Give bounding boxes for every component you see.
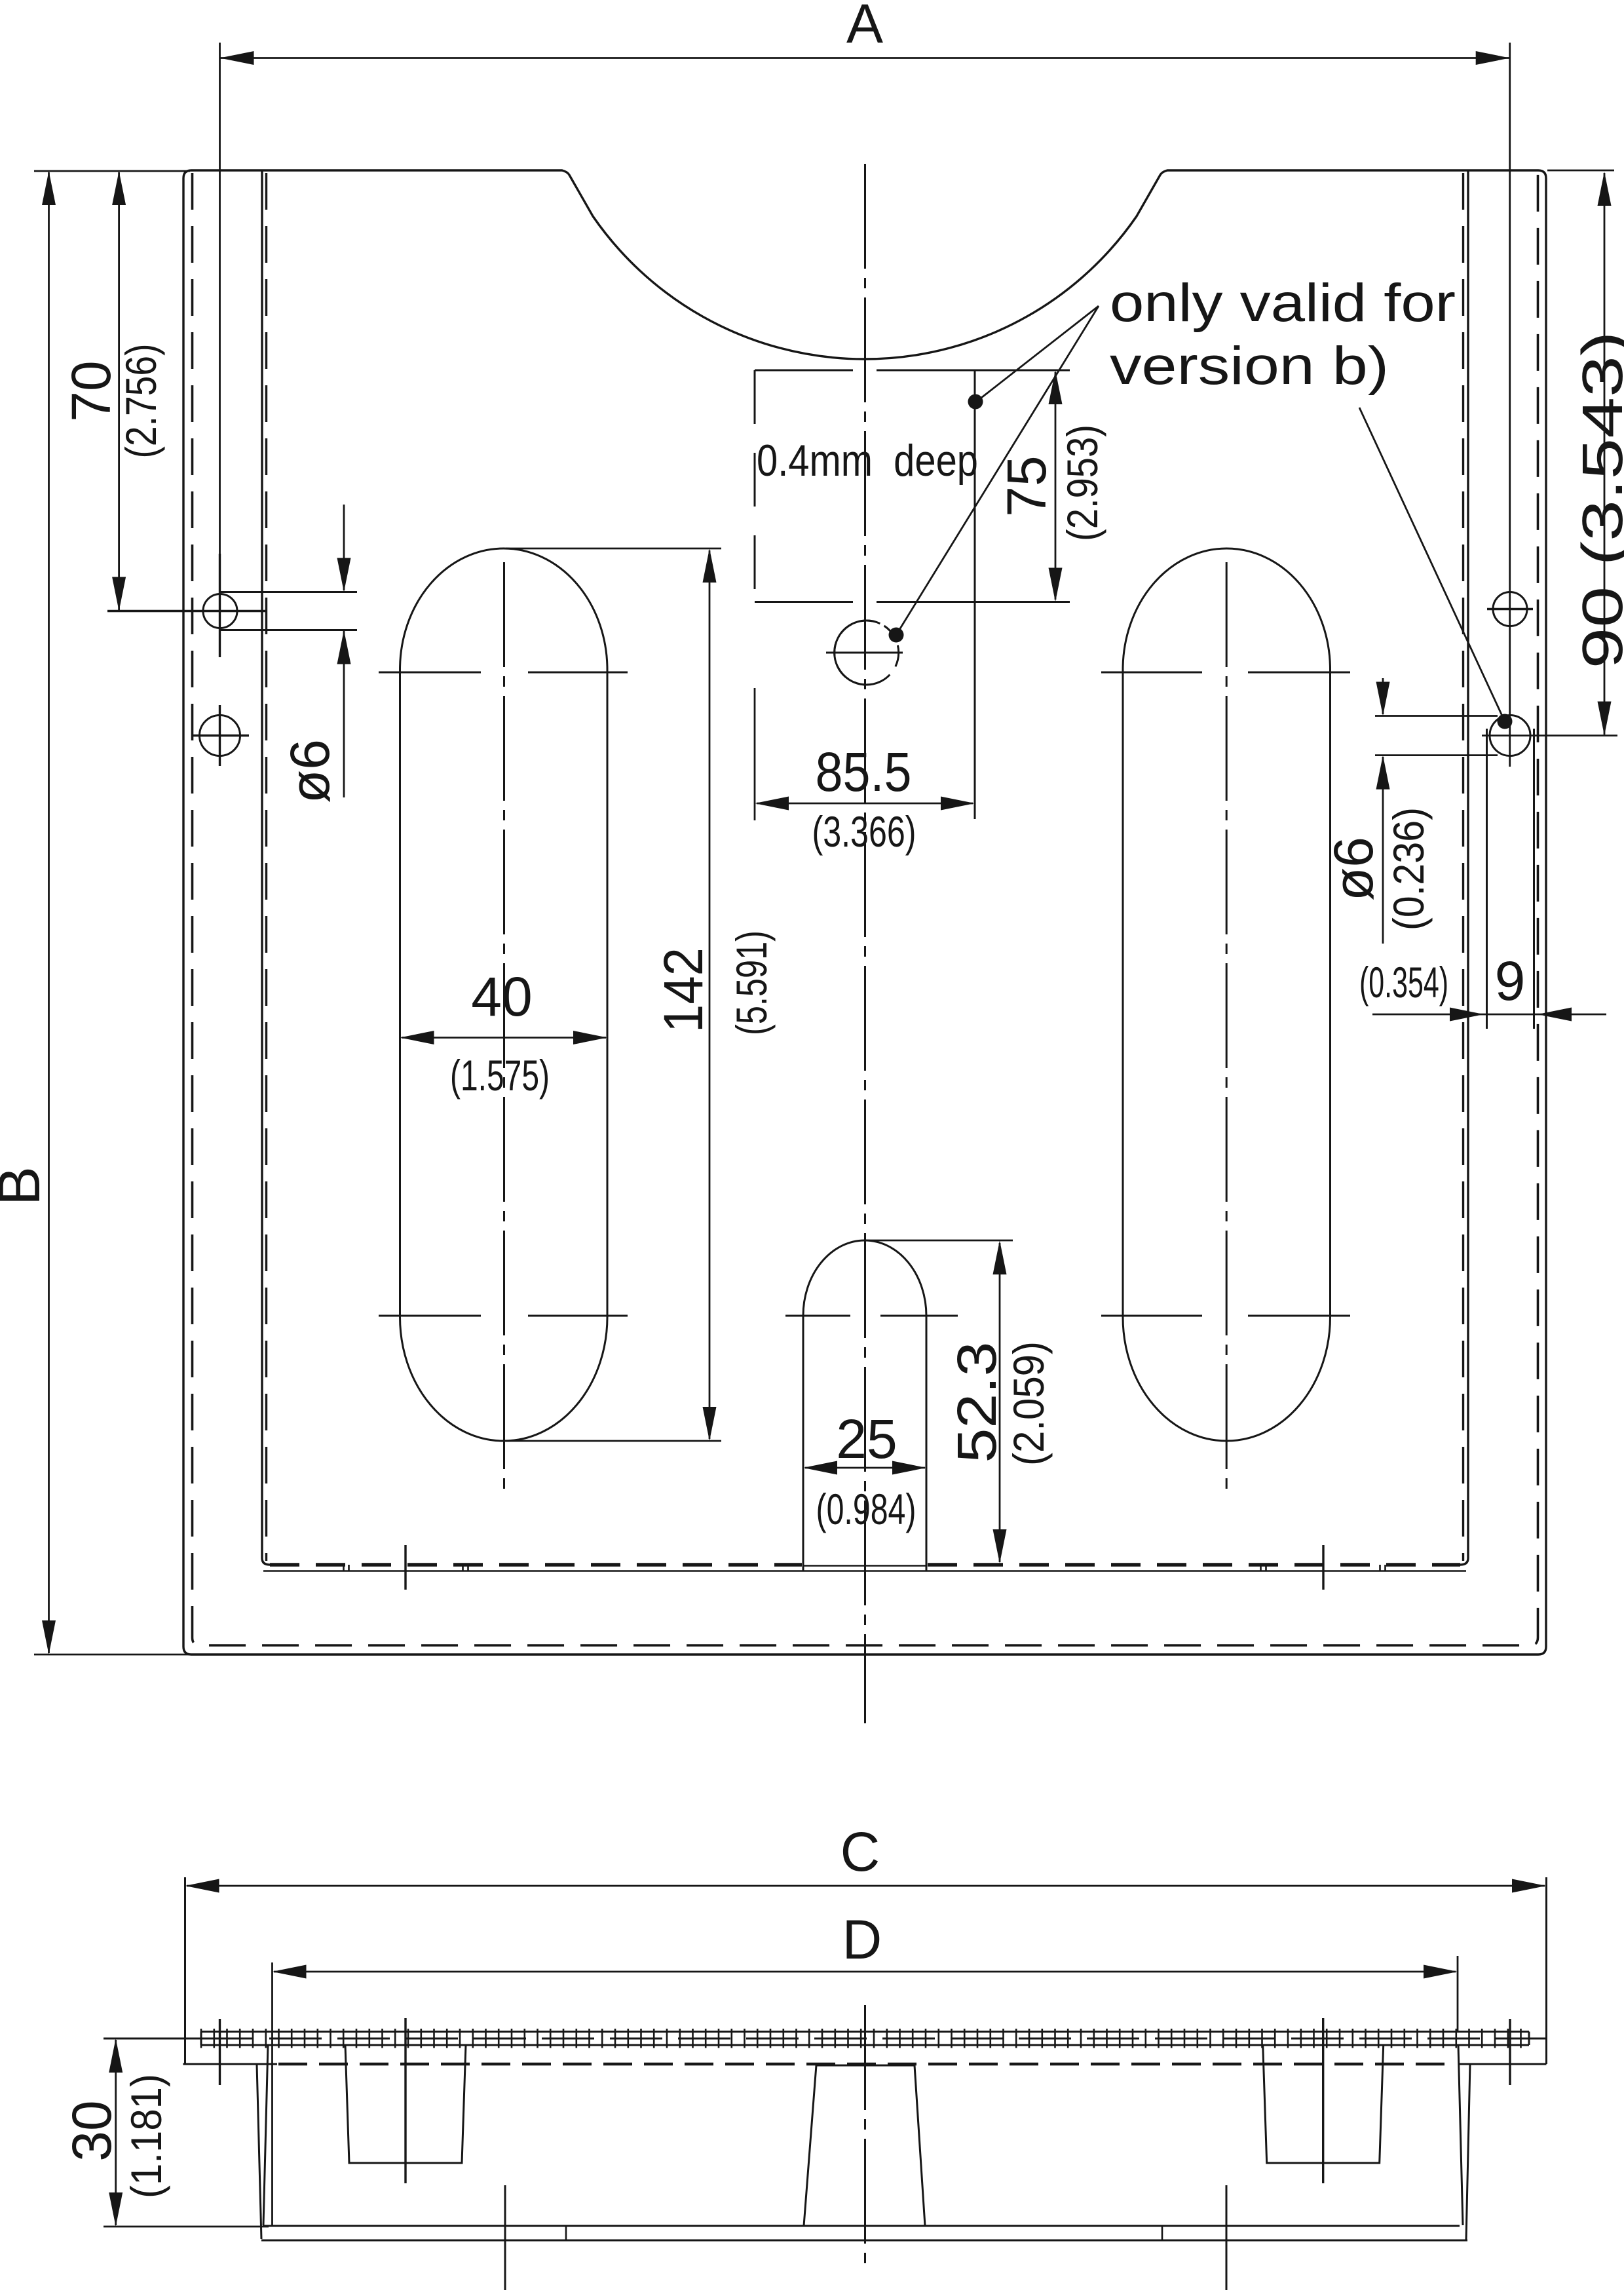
dim C line [187,1885,1545,1887]
centerline hole bottom-right horizontal [1482,735,1617,737]
left slot top spring ticks [379,672,628,674]
svg-text:ø6: ø6 [279,739,341,803]
svg-text:9: 9 [1495,950,1526,1012]
hidden line inner-left (dashed) [265,173,267,1561]
arrowhead 85.5 left [755,797,789,811]
leader line to bottom-right hole [1359,408,1505,721]
svg-text:90 (3.543): 90 (3.543) [1571,332,1624,669]
left slot bottom spring ticks [379,1315,628,1317]
floor edge thin line in central slot span [803,1565,926,1567]
hole top-left [203,594,237,628]
leader dot bottom-right hole [1498,714,1513,729]
dim 90 top extension [1547,170,1614,172]
arrowhead B bottom [42,1620,56,1655]
svg-text:70: 70 [60,360,122,421]
svg-text:(1.181): (1.181) [122,2074,170,2198]
centerline hole top-right horizontal [1487,608,1533,610]
central bottom slot outline [803,1240,926,1571]
dim 70 line [118,172,120,610]
visible arc of version b hole [835,621,880,685]
section left flange lip [104,2038,277,2064]
arrowhead 9 right [1538,1008,1572,1022]
right wall section [1458,2045,1470,2240]
hole bottom-right channel verticals [1487,729,1534,1029]
dim 142 line [709,550,711,1439]
arrowhead 90 bottom [1598,702,1612,736]
hole bottom-right [1490,716,1530,756]
svg-text:85.5: 85.5 [816,741,912,803]
arrowhead 40 right [573,1031,607,1044]
arrowhead 75 bottom [1049,568,1063,602]
middle support section [804,2065,925,2226]
svg-text:(0.354): (0.354) [1359,958,1448,1006]
arrowhead C right [1512,1879,1546,1893]
svg-text:(1.575): (1.575) [450,1051,550,1100]
dim 30 bottom extension [104,2226,269,2228]
arrowhead C left [185,1879,219,1893]
svg-text:(2.059): (2.059) [1004,1341,1053,1466]
svg-text:30: 30 [61,2100,123,2161]
svg-text:version b): version b) [1110,336,1389,396]
svg-text:(2.756): (2.756) [117,344,165,459]
right foot section [1263,2045,1384,2163]
leader line to version b hole [896,306,1099,635]
svg-text:40: 40 [471,966,532,1027]
arrowhead 70 bottom [112,577,126,611]
arrowhead 30 top [109,2038,123,2073]
floor step tick right foot b [1380,1565,1386,1571]
centerline left foot section [404,2018,406,2183]
centerline right foot front view [1322,1545,1324,1590]
svg-text:(3.366): (3.366) [812,807,916,856]
arrowhead 40 left [400,1031,434,1044]
dim 142 bottom extension [506,1440,721,1442]
dim 90 line [1604,173,1606,735]
svg-text:B: B [0,1166,52,1206]
dim 30 top extension [104,2038,202,2040]
hole top-right [1493,592,1527,626]
centerline right slot [1226,562,1228,1497]
dim 52.3 line [999,1243,1001,1562]
centerline hole top-left horizontal [107,610,267,612]
hatch band vertical ticks [201,2029,1521,2048]
recess rectangle bottom edge [755,601,1070,603]
leader line to recess corner [975,306,1099,402]
centerline hole top-left vertical [219,554,221,657]
svg-text:(2.953): (2.953) [1058,425,1106,541]
svg-text:only valid for: only valid for [1110,273,1456,333]
centerline left slot [503,562,505,1497]
dim D line [274,1971,1456,1973]
svg-text:C: C [840,1821,880,1883]
floor step tick left foot b [463,1565,468,1571]
dim o6 right line [1382,678,1384,944]
right slot bottom spring ticks [1101,1315,1350,1317]
arrowhead 25 left [803,1461,837,1475]
plate vertical centerline [864,164,866,1723]
arrowhead o6L up [337,630,351,664]
leader dot recess [968,394,983,410]
svg-text:75: 75 [996,455,1057,516]
svg-text:(5.591): (5.591) [727,930,776,1035]
hidden tray floor edge (thick dashed) right part [928,1563,1460,1567]
left slot outline [400,548,608,1441]
recess rectangle top edge [755,370,1070,372]
arrowhead A left [220,51,254,65]
dim D left extension [271,1962,273,2225]
dim A line [220,57,1510,59]
dim 9 line [1372,1014,1606,1016]
dim B line [48,172,50,1653]
arrowhead 25 right [892,1461,926,1475]
bottom step tick right [1161,2226,1163,2240]
dim 85.5 line [757,803,973,805]
svg-text:D: D [842,1909,882,1970]
right slot outline [1123,548,1331,1441]
bottom step tick left [565,2226,567,2240]
arrowhead A right [1476,51,1510,65]
centerline hole bottom-left [191,705,249,766]
arrowhead o6R up [1376,756,1390,790]
dim 30 line [115,2040,117,2225]
dim C left extension / outer left edge [184,1877,186,2064]
arrowhead 85.5 right [941,797,975,811]
arrowhead 52.3 top [993,1240,1007,1274]
arrowhead 142 bottom [703,1407,717,1441]
leader dot version b hole [889,628,904,643]
hidden outline outer (dashed) [193,173,1538,1645]
centerline right hole section tick [1509,2019,1511,2085]
arrowhead o6L down [337,558,351,592]
plate outer outline with top cutout [183,170,1546,1655]
centerline plate section [864,2005,866,2267]
svg-text:0.4mm deep: 0.4mm deep [757,436,978,486]
arrowhead o6R down [1376,682,1390,716]
dim 40 line [402,1037,606,1039]
svg-text:(0.236): (0.236) [1384,807,1433,930]
central slot spring ticks [785,1315,958,1317]
dim B bottom extension [34,1654,198,1656]
dim D right extension [1457,1956,1459,2033]
arrowhead 52.3 bottom [993,1529,1007,1563]
dim 85.5 left extension [754,688,756,820]
dim 142 top extension [506,548,721,550]
centerline right foot section [1322,2018,1324,2183]
svg-text:(0.984): (0.984) [816,1485,916,1533]
dim A extension left / hole centerline [219,43,221,645]
dim 25 line [805,1467,925,1469]
hole top-left channel tangent lines [221,592,357,630]
centerline left foot front view [404,1545,406,1590]
recess rectangle right edge [974,370,976,819]
hidden circle version b (dashed) [835,621,899,685]
dim o6 left line [343,505,345,797]
arrowhead 70 top [112,171,126,205]
version b hole horizontal tick [826,652,903,654]
arrowhead 9 left [1450,1008,1484,1022]
svg-text:52.3: 52.3 [946,1342,1008,1463]
hidden tray floor edge (thick dashed) left part [270,1563,802,1567]
hatch band outline [201,2032,1529,2046]
dim A extension right / hole centerline [1509,43,1511,767]
centerline right slot below section [1226,2185,1228,2296]
svg-text:142: 142 [652,947,714,1033]
left wall section [257,2045,268,2239]
hidden floor line section (dashed) [278,2063,1454,2066]
svg-text:ø6: ø6 [1323,837,1384,901]
inner wall left [262,170,270,1565]
centerline left slot below section [504,2185,506,2296]
hole bottom-left [200,716,240,756]
hidden line inner-right (dashed) [1462,173,1464,1561]
visible floor edge thin full line [263,1570,1466,1572]
dim 52.3 top extension [866,1240,1013,1242]
right slot top spring ticks [1101,672,1350,674]
arrowhead D left [273,1965,307,1979]
arrowhead 90 top [1598,172,1612,206]
svg-text:25: 25 [836,1408,897,1470]
floor step tick right foot a [1261,1565,1266,1571]
section bottom outer line [261,2240,1467,2242]
arrowhead 142 top [703,548,717,583]
dim C right extension / outer right edge [1545,1877,1547,2064]
arrowhead 30 bottom [109,2192,123,2227]
floor step tick left foot a [344,1565,349,1571]
hatch band midline [201,2038,1529,2040]
arrowhead B top [42,171,56,205]
arrowhead D right [1424,1965,1458,1979]
section bottom inner line [263,2225,1460,2227]
centerline left hole section tick [219,2019,221,2085]
dim 75 line [1055,372,1057,600]
recess rectangle left edge (dashed) [754,370,756,602]
section right flange lip [1459,2038,1547,2064]
svg-text:A: A [846,0,883,54]
dim B top extension [34,170,190,172]
inner wall right [1460,170,1468,1565]
left foot section [345,2045,466,2163]
arrowhead 75 top [1049,370,1063,404]
hole bottom-right tangent extension lines [1375,716,1498,756]
